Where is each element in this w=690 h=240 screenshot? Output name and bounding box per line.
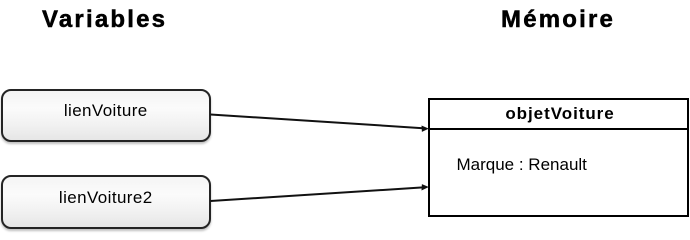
heading Variables (42, 8, 167, 32)
variable box lienVoiture2 (1, 175, 211, 229)
attribute Marque : Renault (457, 155, 587, 175)
heading Mémoire (501, 8, 615, 32)
title objetVoiture (430, 100, 687, 130)
object box objetVoiture (428, 98, 689, 217)
label lienVoiture2 (3, 188, 209, 208)
arrow from lienVoiture to objetVoiture (211, 115, 429, 132)
arrow from lienVoiture2 to objetVoiture (211, 184, 429, 201)
label lienVoiture (3, 101, 209, 121)
variable box lienVoiture (1, 89, 211, 142)
